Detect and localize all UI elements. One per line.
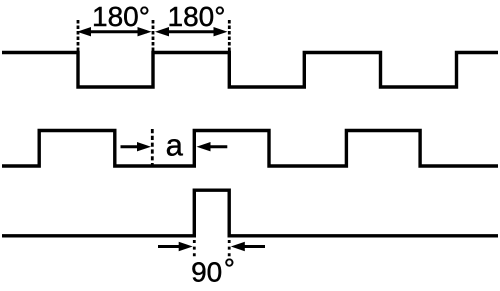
svg-text:a: a — [166, 127, 184, 162]
svg-text:180°: 180° — [92, 1, 150, 32]
dotted extension line at second falling edge of A — [228, 20, 231, 52]
dotted extension line through waveform B at rising edge of A — [151, 129, 154, 167]
dotted extension line below index pulse rising edge — [193, 240, 196, 258]
arrow pointing right at phase offset a — [121, 142, 152, 151]
waveform A (top square wave, channel A) — [2, 53, 498, 88]
arrow pointing right at index pulse width — [158, 242, 193, 251]
dotted extension line below index pulse falling edge — [228, 240, 231, 258]
arrow pointing left at phase offset a — [197, 142, 228, 151]
dimension arrow 180 degrees (first half period) — [77, 27, 152, 36]
svg-text:180°: 180° — [168, 1, 226, 32]
dotted extension line at first falling edge of A — [77, 20, 80, 52]
dotted extension line at first rising edge of A — [152, 20, 155, 52]
arrow pointing left at index pulse width — [231, 242, 265, 251]
svg-text:90°: 90° — [191, 253, 235, 288]
waveform B (middle square wave, channel B) — [2, 131, 498, 167]
dimension arrow 180 degrees (second half period) — [155, 27, 228, 36]
waveform Z (bottom index pulse) — [2, 190, 498, 236]
